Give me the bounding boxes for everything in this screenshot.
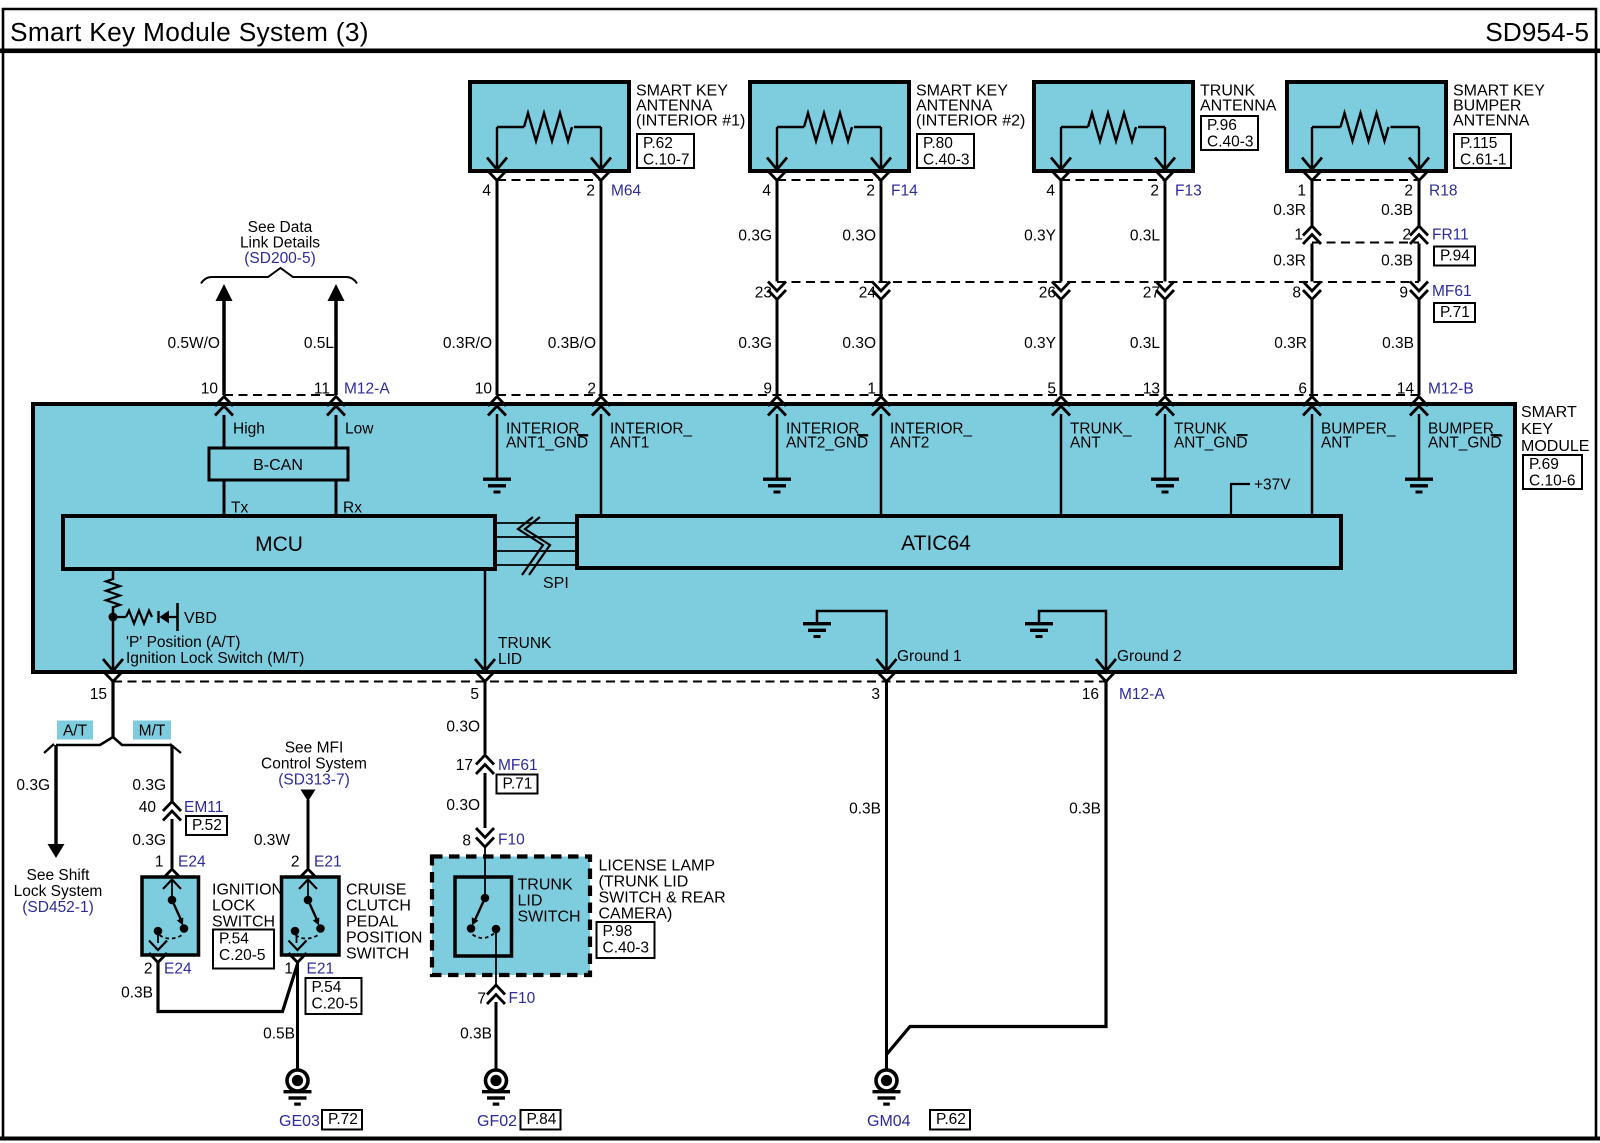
antenna F13: reference box (1201, 116, 1258, 150)
wire 0.3O (F14-2) lower segment (880, 300, 883, 395)
svg-text:9: 9 (1399, 285, 1408, 302)
svg-text:0.3B: 0.3B (849, 801, 881, 818)
wire 0.5B to GE03 (296, 961, 299, 1070)
arrow to data link (right) (328, 284, 345, 301)
svg-text:M12-B: M12-B (1428, 381, 1474, 398)
svg-text:C.20-5: C.20-5 (219, 947, 266, 964)
svg-text:SMART: SMART (1521, 404, 1577, 421)
wire 0.3B (module pin 16 to GM04) (887, 682, 1107, 1055)
svg-text:P.72: P.72 (328, 1111, 358, 1128)
svg-text:CAMERA): CAMERA) (599, 906, 673, 923)
svg-text:ANT_GND: ANT_GND (1174, 435, 1248, 452)
connector FR11 reference box (1434, 247, 1475, 266)
svg-text:0.3O: 0.3O (842, 335, 876, 352)
connector FR11 dashed boundary (1312, 242, 1419, 244)
module bottom pin 15 exit arrows (103, 659, 123, 682)
antenna M64: coil box (470, 82, 629, 171)
module pin name INTERIOR_ANT1 (610, 421, 693, 452)
svg-text:24: 24 (859, 285, 877, 302)
svg-text:0.3B: 0.3B (1381, 202, 1413, 219)
antenna F14: name label (916, 83, 1025, 130)
svg-text:ANT: ANT (1321, 435, 1352, 452)
internal ground for BUMPER_ANT_GND (1405, 478, 1433, 494)
svg-text:P.62: P.62 (643, 135, 673, 152)
ground GM04 (873, 1070, 901, 1106)
wire 0.3Y (F13-4) lower segment (1060, 300, 1063, 395)
antenna F14: connector dashed boundary (777, 179, 881, 181)
MCU block (63, 516, 495, 569)
connector E21 chevrons (pin 2) (299, 869, 317, 879)
svg-text:MODULE: MODULE (1521, 438, 1589, 455)
svg-text:Lock System: Lock System (14, 883, 103, 900)
svg-text:26: 26 (1039, 285, 1056, 302)
svg-text:(INTERIOR #1): (INTERIOR #1) (636, 113, 745, 130)
svg-text:C.40-3: C.40-3 (603, 940, 650, 957)
connector E24 chevrons (pin 1) (163, 869, 181, 879)
connector MF61 chevrons pin 27 (1156, 282, 1174, 300)
wire 0.3G M/T branch lower (171, 819, 174, 868)
antenna R18: name label (1453, 83, 1545, 130)
smart key module box (33, 404, 1515, 672)
connector EM11 reference box (186, 816, 227, 835)
svg-text:'P' Position (A/T): 'P' Position (A/T) (126, 634, 240, 651)
antenna M64: name label (636, 83, 745, 130)
wire module pin x=1312 to ATIC64 (1311, 414, 1314, 516)
internal ground symbol (Ground 1) (803, 622, 831, 638)
svg-text:ANT2_GND: ANT2_GND (786, 435, 868, 452)
ATIC64 block (577, 516, 1341, 568)
svg-text:SWITCH: SWITCH (346, 946, 409, 963)
antenna M64: reference box (637, 134, 694, 168)
svg-text:C.61-1: C.61-1 (1460, 152, 1507, 169)
svg-text:SD954-5: SD954-5 (1485, 17, 1589, 47)
license lamp dashed enclosure (432, 857, 590, 976)
note: See MFI Control System (261, 740, 367, 789)
svg-text:0.3Y: 0.3Y (1024, 335, 1056, 352)
svg-text:ANT_GND: ANT_GND (1428, 435, 1502, 452)
svg-text:F13: F13 (1175, 183, 1202, 200)
svg-text:0.3O: 0.3O (446, 719, 480, 736)
B-CAN block (209, 448, 348, 480)
wire 0.3B to GF02 (495, 1002, 498, 1070)
internal Ground 2 circuit (1039, 611, 1106, 671)
svg-text:1: 1 (155, 854, 164, 871)
wire module pin BUMPER_ANT_GND to internal ground (1418, 414, 1421, 478)
wire 0.3L (F13-2) upper segment (1164, 180, 1167, 282)
wire 0.3O (module pin 5) upper (484, 682, 487, 755)
module pin entry chevrons at x=1312 (1303, 397, 1321, 416)
svg-text:R18: R18 (1429, 183, 1457, 200)
ground GM04 reference box (930, 1110, 970, 1130)
svg-text:ANT1: ANT1 (610, 435, 649, 452)
svg-text:M64: M64 (611, 183, 642, 200)
wire 0.3R (R18-1) segment 1 (1311, 180, 1314, 226)
+37V supply tap (1231, 477, 1291, 517)
svg-text:0.3R: 0.3R (1273, 253, 1306, 270)
svg-text:0.3G: 0.3G (738, 335, 772, 352)
wire 0.3R/O (M64-4 to module 10) (496, 180, 499, 395)
module pin entry chevrons at x=881 (872, 397, 890, 416)
svg-text:GM04: GM04 (867, 1113, 911, 1130)
connector F10 chevrons (pin 8) (476, 828, 494, 847)
svg-text:2: 2 (1402, 227, 1411, 244)
wire 0.3R (R18-1) segment 3 (1311, 300, 1314, 395)
svg-text:LID: LID (498, 651, 522, 668)
svg-text:P.115: P.115 (1460, 135, 1497, 152)
svg-text:(SD313-7): (SD313-7) (278, 772, 350, 789)
module pin entry chevrons at x=224 (215, 397, 233, 416)
antenna R18: connector interface (pins 1/2) (1303, 171, 1428, 181)
arrow from MFI control system (301, 790, 316, 802)
svg-text:F10: F10 (509, 990, 536, 1007)
wire pin 15 to branch junction (111, 682, 114, 739)
svg-text:17: 17 (456, 757, 473, 774)
wire 0.3B/O (M64-2 to module 2) (600, 180, 603, 395)
ground GE03 reference box (322, 1110, 362, 1130)
svg-text:See Shift: See Shift (27, 867, 91, 884)
svg-text:(SD200-5): (SD200-5) (244, 250, 316, 267)
svg-text:Ground 1: Ground 1 (897, 648, 962, 665)
svg-text:Control System: Control System (261, 756, 367, 773)
wire 0.3Y (F13-4) upper segment (1060, 180, 1063, 282)
svg-text:MCU: MCU (255, 533, 303, 556)
svg-text:0.3G: 0.3G (132, 777, 166, 794)
antenna R18: coil resistor element (1302, 113, 1429, 170)
wire 0.3R (R18-1) segment 2 (1311, 244, 1314, 282)
wire module pin 10 to B-CAN (High) (223, 415, 226, 448)
svg-text:E21: E21 (307, 961, 335, 978)
internal ground for ANT2_GND (763, 478, 791, 494)
svg-text:0.3W: 0.3W (254, 832, 291, 849)
module bottom pin 16 exit arrows (1096, 659, 1116, 682)
svg-text:40: 40 (139, 799, 157, 816)
svg-text:1: 1 (1294, 227, 1303, 244)
wire 0.3W (307, 800, 310, 868)
module pin name BUMPER_ANT_GND (1428, 421, 1503, 452)
svg-text:3: 3 (871, 686, 880, 703)
svg-text:27: 27 (1143, 285, 1160, 302)
svg-text:P.69: P.69 (1529, 456, 1559, 473)
svg-text:TRUNK: TRUNK (498, 635, 552, 652)
wire module pin ANT2_GND to internal ground (776, 414, 779, 478)
svg-text:C.40-3: C.40-3 (1207, 134, 1254, 151)
svg-text:8: 8 (462, 833, 471, 850)
M/T option tag (133, 721, 171, 740)
svg-text:MF61: MF61 (1432, 283, 1472, 300)
connector MF61(17) reference box (497, 775, 538, 794)
svg-text:P.94: P.94 (1440, 248, 1470, 265)
cruise switch name label (346, 882, 422, 963)
svg-text:4: 4 (762, 183, 771, 200)
svg-text:SWITCH: SWITCH (518, 909, 581, 926)
svg-text:0.3B/O: 0.3B/O (548, 335, 596, 352)
connector EM11 chevrons (pin 40) (163, 802, 181, 821)
svg-text:SPI: SPI (543, 575, 569, 592)
ground GF02 (482, 1070, 510, 1106)
svg-text:LID: LID (518, 893, 543, 910)
trunk lid switch name label (518, 877, 581, 926)
module pin name INTERIOR_ANT2_GND (786, 421, 869, 452)
ground GE03 (284, 1070, 312, 1106)
wire module pin ANT1_GND to internal ground (496, 414, 499, 478)
svg-text:Ground 2: Ground 2 (1117, 648, 1182, 665)
wire module pin 11 to B-CAN (Low) (335, 415, 338, 448)
diode to VBD (159, 611, 178, 624)
license lamp name label (599, 858, 726, 923)
antenna F13: connector interface (pins 4/2) (1052, 171, 1174, 181)
wire 0.3B (R18-2) segment 2 (1418, 244, 1421, 282)
license lamp reference box (597, 922, 655, 958)
svg-text:0.3R: 0.3R (1274, 335, 1307, 352)
svg-text:+37V: +37V (1254, 477, 1291, 494)
wire 0.3O (F14-2) upper segment (880, 180, 883, 282)
antenna F13: coil resistor element (1051, 113, 1175, 170)
internal ground symbol (Ground 2) (1025, 622, 1053, 638)
wire below trunk lid switch (495, 975, 497, 984)
wire B-CAN Rx to MCU (335, 480, 338, 516)
wire MCU to TRUNK LID output (pin 5) (484, 569, 487, 671)
wire 0.3G A/T branch (44, 744, 56, 845)
svg-text:0.3B: 0.3B (1382, 335, 1414, 352)
svg-text:Ignition Lock Switch (M/T): Ignition Lock Switch (M/T) (126, 650, 304, 667)
internal ground for ANT1_GND (483, 478, 511, 494)
module pin entry chevrons at x=1061 (1052, 397, 1070, 416)
wire into trunk lid switch (484, 847, 486, 898)
svg-text:2: 2 (1150, 183, 1159, 200)
svg-text:1: 1 (1297, 183, 1306, 200)
connector MF61 reference box (1434, 303, 1475, 322)
svg-text:PEDAL: PEDAL (346, 914, 399, 931)
svg-text:P.52: P.52 (192, 817, 222, 834)
svg-text:4: 4 (482, 183, 491, 200)
svg-text:0.5L: 0.5L (304, 335, 335, 352)
wire 0.5L (module 11 to data link) (334, 299, 338, 395)
connector MF61 chevrons pin 24 (872, 282, 890, 300)
VBD terminal bar (176, 603, 179, 631)
svg-text:0.3L: 0.3L (1130, 228, 1161, 245)
ignition lock switch reference box (213, 930, 274, 969)
connector E21 reference box (306, 978, 362, 1014)
note: See Shift Lock System (14, 867, 103, 916)
svg-text:ANT: ANT (1070, 435, 1101, 452)
svg-text:POSITION: POSITION (346, 930, 422, 947)
SPI bus break symbol (518, 517, 550, 575)
module pin name TRUNK_ANT (1070, 421, 1132, 452)
ground GF02 reference box (521, 1110, 561, 1130)
wire 0.3G (F14-4) lower segment (776, 300, 779, 395)
svg-text:23: 23 (755, 285, 772, 302)
svg-text:8: 8 (1292, 285, 1301, 302)
antenna M64: coil resistor element (487, 113, 611, 170)
svg-text:(INTERIOR #2): (INTERIOR #2) (916, 113, 1025, 130)
brace: see data link details (201, 268, 357, 284)
note: See Data Link Details (240, 219, 320, 267)
wire module pin x=1061 to ATIC64 (1060, 414, 1063, 516)
branch gull-wing to A/T and M/T (56, 737, 172, 745)
connector FR11 chevrons pin 1 (1303, 226, 1321, 244)
svg-text:Low: Low (345, 421, 374, 438)
arrow to shift lock system (48, 844, 65, 858)
svg-text:TRUNK: TRUNK (518, 877, 573, 894)
svg-text:F14: F14 (891, 183, 918, 200)
svg-text:P.96: P.96 (1207, 117, 1237, 134)
svg-text:2: 2 (1404, 183, 1413, 200)
svg-text:(TRUNK LID: (TRUNK LID (599, 874, 689, 891)
wire 0.3G (F14-4) upper segment (776, 180, 779, 282)
svg-text:KEY: KEY (1521, 421, 1553, 438)
svg-text:P.80: P.80 (923, 135, 953, 152)
wire 0.3O lower (484, 773, 487, 828)
svg-text:0.3B: 0.3B (460, 1026, 492, 1043)
svg-text:1: 1 (284, 961, 293, 978)
svg-text:CLUTCH: CLUTCH (346, 898, 411, 915)
svg-text:P.62: P.62 (936, 1111, 966, 1128)
svg-text:GF02: GF02 (477, 1113, 517, 1130)
svg-text:E21: E21 (314, 854, 342, 871)
connector MF61 chevrons pin 8 (1303, 282, 1321, 300)
antenna F13: coil box (1034, 82, 1193, 171)
arrow to data link (left) (216, 284, 233, 301)
connector FR11 chevrons pin 2 (1410, 226, 1428, 244)
antenna F14: reference box (917, 134, 974, 168)
antenna M64: connector interface (pins 4/2) (488, 171, 610, 181)
svg-text:(SD452-1): (SD452-1) (22, 899, 94, 916)
connector E24 chevrons (pin 2) (149, 953, 167, 963)
module pin entry chevrons at x=601 (592, 397, 610, 416)
antenna F14: coil resistor element (767, 113, 891, 170)
svg-text:Rx: Rx (343, 500, 362, 517)
module pin entry chevrons at x=336 (327, 397, 345, 416)
svg-text:C.10-6: C.10-6 (1529, 473, 1576, 490)
svg-text:EM11: EM11 (184, 799, 223, 816)
module pin entry chevrons at x=1419 (1410, 397, 1428, 416)
svg-text:P.84: P.84 (527, 1111, 557, 1128)
antenna R18: connector dashed boundary (1312, 179, 1419, 181)
svg-text:ATIC64: ATIC64 (901, 532, 971, 555)
wire MCU to P-position sense (pin 15) (112, 569, 115, 580)
svg-text:MF61: MF61 (498, 757, 538, 774)
module pin entry chevrons at x=497 (488, 397, 506, 416)
svg-text:10: 10 (475, 381, 493, 398)
svg-text:High: High (233, 421, 265, 438)
svg-text:5: 5 (470, 686, 479, 703)
connector MF61 dashed boundary (777, 281, 1419, 283)
svg-text:A/T: A/T (63, 723, 88, 740)
svg-text:4: 4 (1046, 183, 1055, 200)
svg-text:FR11: FR11 (1432, 227, 1469, 244)
wire 0.3L (F13-2) lower segment (1164, 300, 1167, 395)
module bottom dashed boundary (M12-A) (113, 681, 1106, 683)
connector F10 chevrons (pin 7) (487, 985, 505, 1004)
ignition lock switch name label (212, 882, 283, 931)
svg-text:Tx: Tx (231, 500, 248, 517)
antenna R18: coil box (1287, 82, 1446, 171)
antenna M64: connector dashed boundary (497, 179, 601, 181)
wire 0.5W/O (module 10 to data link) (222, 299, 226, 395)
resistor (vertical) in P position sense (106, 579, 120, 607)
cruise clutch pedal position switch internals (289, 880, 325, 951)
svg-text:LOCK: LOCK (212, 898, 256, 915)
svg-text:0.3B: 0.3B (121, 985, 153, 1002)
connector MF61 chevrons pin 9 (1410, 282, 1428, 300)
module pin name INTERIOR_ANT1_GND (506, 421, 589, 452)
wire 0.3B (R18-2) segment 1 (1418, 180, 1421, 226)
label TRUNK LID (498, 635, 552, 668)
svg-text:ANTENNA: ANTENNA (1453, 113, 1530, 130)
svg-text:0.3L: 0.3L (1130, 335, 1161, 352)
wire module pin TRUNK_ANT_GND to internal ground (1164, 414, 1167, 478)
label 'P' Position / Ignition Lock Switch (126, 634, 304, 667)
junction node at VBD branch (109, 613, 118, 622)
svg-text:0.3G: 0.3G (132, 832, 166, 849)
wire module pin x=881 to ATIC64 (880, 414, 883, 516)
svg-text:10: 10 (201, 381, 219, 398)
module top dashed boundary (M12-B) (497, 394, 1419, 396)
smart key module name label (1521, 404, 1589, 455)
wire 0.3B (R18-2) segment 3 (1418, 300, 1421, 395)
svg-text:0.3G: 0.3G (738, 228, 772, 245)
module bottom pin 5 exit arrows (475, 659, 495, 682)
module bottom pin 3 exit arrows (877, 659, 897, 682)
svg-text:0.3Y: 0.3Y (1024, 228, 1056, 245)
svg-text:P.54: P.54 (312, 979, 342, 996)
svg-text:0.5W/O: 0.5W/O (167, 335, 220, 352)
svg-text:E24: E24 (178, 854, 206, 871)
svg-text:C.40-3: C.40-3 (923, 152, 970, 169)
svg-text:M12-A: M12-A (344, 381, 390, 398)
smart key module reference box (1523, 455, 1582, 489)
svg-text:Smart Key Module System (3): Smart Key Module System (3) (10, 17, 369, 47)
svg-text:P.71: P.71 (1440, 304, 1470, 321)
svg-text:2: 2 (866, 183, 875, 200)
wire B-CAN Tx to MCU (223, 480, 226, 516)
cruise clutch pedal position switch box (282, 877, 340, 955)
trunk lid switch internals (467, 894, 501, 975)
svg-text:B-CAN: B-CAN (253, 457, 303, 474)
svg-text:0.3R/O: 0.3R/O (443, 335, 492, 352)
svg-text:0.5B: 0.5B (263, 1026, 295, 1043)
svg-text:0.3B: 0.3B (1069, 801, 1101, 818)
svg-text:P.71: P.71 (503, 776, 533, 793)
antenna R18: reference box (1454, 134, 1511, 168)
wire resistor to junction (112, 606, 115, 672)
svg-text:ANT1_GND: ANT1_GND (506, 435, 588, 452)
svg-text:GE03: GE03 (279, 1113, 320, 1130)
wire module pin x=601 to ATIC64 (600, 414, 603, 516)
internal ground for TRUNK_ANT_GND (1151, 478, 1179, 494)
antenna F14: connector interface (pins 4/2) (768, 171, 890, 181)
module top dashed boundary (M12-A) (224, 394, 336, 396)
svg-text:M12-A: M12-A (1119, 686, 1165, 703)
svg-text:0.3R: 0.3R (1273, 202, 1306, 219)
svg-text:P.98: P.98 (603, 923, 633, 940)
svg-text:Link Details: Link Details (240, 235, 320, 252)
svg-text:7: 7 (477, 991, 486, 1008)
connector E21 chevrons (pin 1) (289, 953, 307, 963)
module pin entry chevrons at x=1165 (1156, 397, 1174, 416)
svg-text:See MFI: See MFI (285, 740, 344, 757)
svg-text:IGNITION: IGNITION (212, 882, 283, 899)
antenna F13: connector dashed boundary (1061, 179, 1165, 181)
svg-text:F10: F10 (498, 832, 525, 849)
svg-text:P.54: P.54 (219, 931, 249, 948)
ignition lock switch internals (149, 880, 188, 951)
svg-text:SWITCH & REAR: SWITCH & REAR (599, 890, 726, 907)
wire 0.3B from E24-2 (158, 961, 298, 1012)
svg-text:VBD: VBD (184, 610, 217, 627)
connector MF61 chevrons pin 26 (1052, 282, 1070, 300)
module pin name INTERIOR_ANT2 (890, 421, 973, 452)
